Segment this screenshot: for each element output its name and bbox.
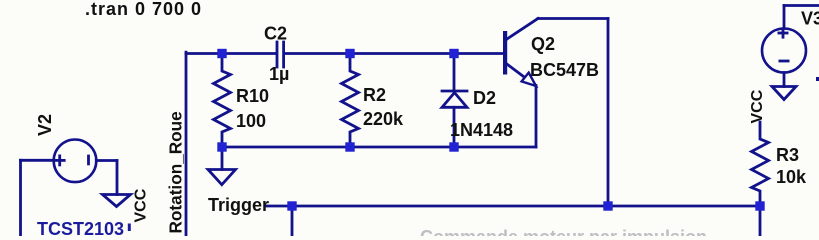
svg-text:TCST2103: TCST2103 — [37, 219, 124, 236]
svg-text:C2: C2 — [264, 24, 287, 44]
svg-text:Trigger: Trigger — [208, 195, 269, 215]
svg-text:V2: V2 — [35, 114, 55, 136]
svg-text:1µ: 1µ — [269, 64, 289, 84]
svg-text:Commande moteur par impulsion: Commande moteur par impulsion — [420, 227, 707, 236]
svg-text:R2: R2 — [363, 85, 386, 105]
svg-text:220k: 220k — [363, 109, 404, 129]
svg-text:VCC: VCC — [133, 188, 150, 222]
svg-text:V3: V3 — [801, 9, 819, 29]
svg-text:.tran 0 700 0: .tran 0 700 0 — [85, 0, 202, 19]
svg-text:1N4148: 1N4148 — [450, 120, 513, 140]
svg-text:Q2: Q2 — [531, 34, 555, 54]
svg-text:10k: 10k — [776, 167, 807, 187]
svg-text:Rotation_Roue: Rotation_Roue — [166, 111, 186, 233]
svg-text:D2: D2 — [473, 88, 496, 108]
svg-text:VCC: VCC — [749, 89, 766, 123]
svg-text:BC547B: BC547B — [530, 60, 599, 80]
svg-text:R10: R10 — [236, 86, 269, 106]
svg-text:R3: R3 — [776, 145, 799, 165]
svg-text:100: 100 — [236, 111, 266, 131]
